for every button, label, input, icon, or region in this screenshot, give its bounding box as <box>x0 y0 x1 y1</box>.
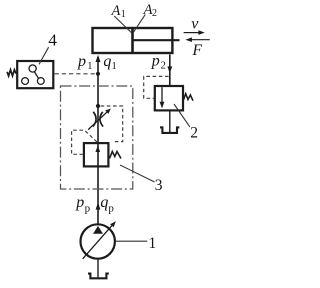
throttle left arc <box>93 112 96 127</box>
force arrow F <box>192 39 210 41</box>
svg-text:p: p <box>151 52 160 69</box>
node dot above throttle <box>96 104 100 108</box>
leader 4 <box>39 47 49 64</box>
svg-text:p: p <box>85 202 91 214</box>
svg-text:1: 1 <box>149 235 157 252</box>
pump variable arrow <box>83 224 113 258</box>
switch spring <box>7 70 16 76</box>
svg-text:1: 1 <box>121 9 126 20</box>
switch contact circle bottom-left <box>22 78 29 85</box>
pressure switch 4 box <box>17 61 53 88</box>
svg-text:p: p <box>77 53 86 70</box>
pilot line relief valve 2 <box>144 76 169 98</box>
pilot line node to spring side <box>101 106 123 142</box>
throttle right arc <box>100 112 103 127</box>
pilot line pressure switch to node <box>55 73 96 75</box>
arrow pump outlet flow up <box>96 202 101 209</box>
svg-text:2: 2 <box>161 61 166 72</box>
svg-text:q: q <box>100 194 108 211</box>
leader 1 <box>116 240 148 242</box>
compensator valve 3 body <box>84 143 109 166</box>
relief valve 2 spring <box>183 94 193 101</box>
leader A2 <box>133 15 145 33</box>
drain line valve 2 to tank <box>169 111 171 133</box>
compensator spring <box>110 152 121 159</box>
svg-text:2: 2 <box>152 8 157 19</box>
svg-text:A: A <box>111 3 121 19</box>
switch lever <box>34 72 38 79</box>
compensator flow arrow head <box>95 146 100 152</box>
switch contact circle bottom-right <box>37 78 44 85</box>
relief valve 2 flow path arrow <box>161 87 163 103</box>
relief valve 2 body <box>155 86 183 110</box>
wire p2 cylinder to relief valve <box>169 55 171 87</box>
arrow p1 flow up into cylinder <box>96 55 101 62</box>
pilot line left of compensator <box>72 130 97 154</box>
svg-text:2: 2 <box>190 125 198 142</box>
svg-text:p: p <box>75 194 84 211</box>
leader 3 <box>120 165 155 182</box>
pump 1 circle <box>81 224 115 258</box>
pump outlet triangle <box>93 226 103 234</box>
pump suction line <box>97 258 99 277</box>
throttle variable arrow <box>88 111 108 130</box>
svg-text:F: F <box>192 42 203 59</box>
leader 2 <box>174 104 190 127</box>
svg-text:p: p <box>108 202 114 214</box>
svg-text:1: 1 <box>87 61 92 72</box>
svg-text:1: 1 <box>112 61 117 72</box>
dash-dot enclosure flow control valve 3 <box>61 86 133 189</box>
svg-text:4: 4 <box>48 31 57 50</box>
svg-text:3: 3 <box>155 177 163 194</box>
switch contact circle top <box>29 65 36 72</box>
node junction dot p1 <box>96 72 100 76</box>
cylinder piston rod <box>133 39 180 41</box>
arrow p2 flow down <box>167 66 172 73</box>
tank under pump <box>88 274 109 279</box>
cylinder body <box>93 28 173 53</box>
tank under relief valve <box>160 127 179 132</box>
cylinder piston <box>131 28 134 53</box>
svg-text:q: q <box>103 53 111 70</box>
svg-text:v: v <box>191 16 199 33</box>
wire: main supply line pump to cylinder <box>97 57 99 224</box>
leader A1 <box>114 16 132 33</box>
velocity arrow v <box>184 32 200 34</box>
